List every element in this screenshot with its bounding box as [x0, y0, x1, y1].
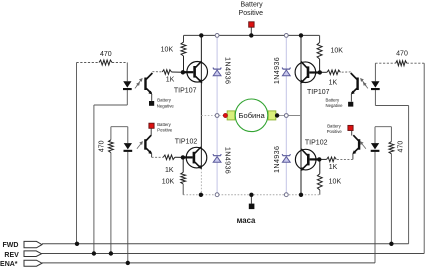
svg-text:Бобина: Бобина [238, 111, 265, 120]
svg-text:Positive: Positive [327, 129, 343, 134]
svg-text:Negative: Negative [326, 103, 344, 108]
svg-text:1K: 1K [329, 79, 338, 86]
svg-text:FWD: FWD [3, 242, 19, 249]
svg-text:470: 470 [398, 141, 405, 153]
svg-text:TIP107: TIP107 [174, 87, 197, 94]
svg-text:Battery: Battery [157, 122, 171, 127]
svg-text:TIP107: TIP107 [307, 89, 330, 96]
svg-text:470: 470 [98, 140, 105, 152]
svg-text:1K: 1K [165, 167, 174, 174]
svg-text:Battery: Battery [241, 2, 264, 9]
svg-text:1N4936: 1N4936 [224, 57, 233, 84]
svg-text:Battery: Battery [326, 98, 340, 103]
svg-text:TIP102: TIP102 [175, 139, 198, 146]
svg-text:Positive: Positive [239, 10, 264, 17]
svg-text:Battery: Battery [327, 123, 341, 128]
svg-text:ENA*: ENA* [0, 261, 18, 267]
svg-text:Negative: Negative [157, 103, 175, 108]
svg-text:10K: 10K [330, 47, 343, 54]
svg-text:Positive: Positive [157, 127, 173, 132]
svg-text:1N4936: 1N4936 [224, 147, 233, 174]
svg-text:470: 470 [396, 51, 408, 58]
svg-text:470: 470 [100, 51, 112, 58]
svg-text:1K: 1K [329, 164, 338, 171]
svg-text:Battery: Battery [157, 98, 171, 103]
svg-text:1K: 1K [166, 76, 175, 83]
svg-text:REV: REV [4, 252, 19, 259]
svg-text:10K: 10K [161, 47, 174, 54]
svg-text:1N4936: 1N4936 [272, 57, 281, 84]
svg-text:10K: 10K [329, 179, 342, 186]
svg-text:маса: маса [237, 216, 256, 225]
svg-text:1N4936: 1N4936 [272, 146, 281, 173]
svg-text:10K: 10K [162, 178, 175, 185]
svg-text:TIP102: TIP102 [305, 140, 328, 147]
